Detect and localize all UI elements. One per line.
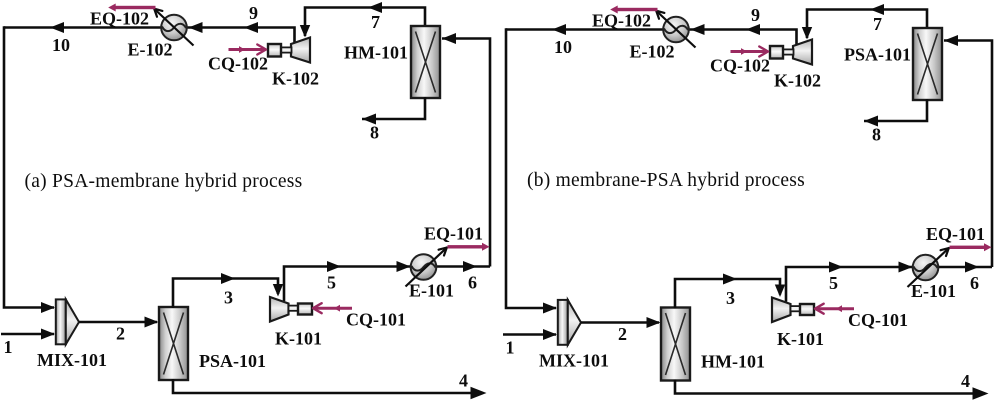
svg-text:7: 7 [371,12,380,32]
svg-text:PSA-101: PSA-101 [199,351,266,371]
arrowhead into K-102 [802,27,812,40]
K-102 motor box [268,44,281,57]
arrowhead stream 3 [723,274,737,285]
svg-text:10: 10 [554,37,572,57]
wire stream 8 [864,99,927,121]
energy stream CQ-101 (purple) [816,307,854,310]
wire stream 5/6 from K-101 through E-101 to right recycle [284,267,490,302]
svg-text:MIX-101: MIX-101 [539,351,609,371]
arrowhead stream 7 [870,4,884,15]
wire stream 7 from column top to K-102 inlet [305,8,425,37]
svg-text:CQ-102: CQ-102 [208,54,268,74]
svg-text:8: 8 [872,125,881,145]
svg-text:9: 9 [751,5,760,25]
arrowhead stream 1 into mixer [41,329,55,340]
svg-text:4: 4 [459,371,468,391]
mixer MIX-101 [558,300,581,345]
svg-text:4: 4 [961,371,970,391]
arrowhead into K-101 [775,285,785,298]
svg-text:5: 5 [327,273,336,293]
wire stream 4 [173,379,483,393]
svg-text:9: 9 [249,3,258,23]
svg-text:EQ-101: EQ-101 [926,224,985,244]
heat exchanger E-101 [913,255,939,281]
K-102 motor box [770,46,783,59]
arrowhead stream 5 [829,262,843,273]
K-102 shaft [783,49,794,54]
wire stream 3 [173,279,278,309]
svg-text:HM-101: HM-101 [344,43,408,63]
arrowhead stream 8 [362,114,376,125]
compressor K-101 [772,298,791,323]
arrowhead into K-101 [273,284,283,297]
svg-text:1: 1 [506,338,515,358]
svg-text:K-101: K-101 [275,329,322,349]
svg-text:6: 6 [468,273,477,293]
svg-text:EQ-102: EQ-102 [90,9,149,29]
wire stream 2 [581,321,659,324]
svg-text:(b) membrane-PSA hybrid proces: (b) membrane-PSA hybrid process [527,170,805,191]
wire recycle right side into top column [442,39,490,267]
energy arrow line through E-102 [657,12,696,48]
wire stream 1 [1,333,54,336]
arrowhead stream 3 [221,273,235,284]
arrowhead stream 8 [864,116,878,127]
arrowhead stream 2 [647,317,661,328]
energy stream CQ-101 (purple) [314,307,352,310]
svg-text:2: 2 [618,324,627,344]
svg-text:EQ-102: EQ-102 [592,11,651,31]
heat exchanger E-102 [663,17,689,43]
svg-text:CQ-101: CQ-101 [346,310,406,330]
arrowhead into E-101 [397,261,411,272]
energy arrow line through E-102 [155,10,194,46]
svg-text:E-102: E-102 [128,40,173,60]
svg-text:CQ-102: CQ-102 [710,56,770,76]
wire stream 1 [503,333,556,336]
arrowhead stream 5 [327,261,341,272]
svg-text:PSA-101: PSA-101 [844,45,911,65]
column HM-101 (top) [411,26,440,98]
column PSA-101 (top) [913,28,942,100]
arrowhead stream 4 [973,387,989,399]
svg-text:1: 1 [4,337,13,357]
svg-text:K-102: K-102 [272,69,319,89]
arrowhead into K-102 [300,25,310,38]
mixer MIX-101 [56,299,79,344]
svg-text:7: 7 [873,14,882,34]
svg-text:K-102: K-102 [774,71,821,91]
arrowhead stream 6 [965,262,979,273]
energy stream EQ-101 (purple) [448,245,484,248]
wire stream 2 [79,321,157,324]
energy stream CQ-102 (purple) [229,48,266,51]
svg-text:5: 5 [829,273,838,293]
arrowhead stream 10 [552,24,566,35]
energy stream EQ-102 (purple) [115,6,156,9]
svg-text:10: 10 [52,35,70,55]
svg-text:E-102: E-102 [630,42,675,62]
arrowhead stream 9 [746,24,760,35]
wire left recycle down-leg into MIX-101 [506,28,556,308]
compressor K-102 [793,40,812,65]
K-102 shaft [281,47,292,52]
wire stream 9/10 from K-102 outlet through E-102 to left edge [4,28,295,44]
svg-text:(a) PSA-membrane hybrid proces: (a) PSA-membrane hybrid process [25,171,303,192]
svg-text:MIX-101: MIX-101 [37,350,107,370]
svg-text:6: 6 [970,273,979,293]
svg-text:8: 8 [370,123,379,143]
arrowhead into E-102 [691,24,705,35]
wire left recycle down-leg into MIX-101 [4,26,54,307]
arrowhead recycle into mixer [41,302,55,313]
wire stream 4 [675,380,985,394]
arrowhead recycle into mixer [543,303,557,314]
arrowhead stream 4 [471,387,487,399]
arrowhead into E-102 [189,22,203,33]
svg-text:3: 3 [224,288,233,308]
compressor K-101 [270,297,289,322]
K-101 shaft [791,306,801,311]
energy arrow line through E-101 [908,249,949,287]
svg-text:K-101: K-101 [777,329,824,349]
energy arrow line through E-101 [406,248,447,286]
svg-text:2: 2 [116,324,125,344]
wire stream 5/6 from K-101 through E-101 to right recycle [786,267,992,302]
arrowhead into E-101 [899,262,913,273]
arrowhead into top column [944,35,958,46]
energy stream EQ-101 (purple) [950,246,986,249]
column HM-101 (bottom) [661,308,690,381]
wire stream 7 from column top to K-102 inlet [807,10,927,39]
svg-text:3: 3 [726,288,735,308]
K-101 shaft [289,306,299,311]
svg-text:E-101: E-101 [409,281,454,301]
compressor K-102 [291,38,310,63]
arrowhead stream 7 [368,2,382,13]
wire stream 8 [362,97,425,119]
arrowhead stream 10 [50,22,64,33]
arrowhead stream 2 [145,317,159,328]
heat exchanger E-102 [161,15,187,41]
energy stream CQ-102 (purple) [731,50,768,53]
arrowhead stream 1 into mixer [543,329,557,340]
wire stream 9/10 from K-102 outlet through E-102 to left edge [506,30,797,46]
K-101 motor box [800,304,814,315]
heat exchanger E-101 [411,254,437,280]
svg-text:HM-101: HM-101 [701,352,765,372]
column PSA-101 (bottom) [159,307,188,380]
wire recycle right side into top column [944,41,992,268]
arrowhead into top column [442,33,456,44]
arrowhead stream 6 [463,261,477,272]
K-101 motor box [298,304,312,315]
wire stream 3 [675,279,780,309]
svg-text:EQ-101: EQ-101 [424,224,483,244]
svg-text:E-101: E-101 [911,281,956,301]
arrowhead stream 9 [244,22,258,33]
svg-text:CQ-101: CQ-101 [848,310,908,330]
energy stream EQ-102 (purple) [617,8,658,11]
